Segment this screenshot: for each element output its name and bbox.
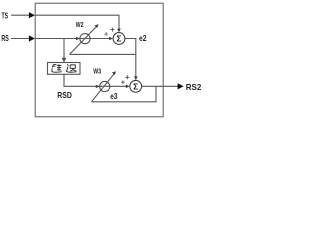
arrowhead into sum2 left (126, 85, 130, 89)
arrowhead into pot W3 left (96, 85, 100, 88)
wire e2 feedback branch to W2 control (70, 53, 136, 55)
wire RS input lead (11, 38, 30, 40)
arrowhead into sum1 top (117, 29, 121, 33)
svg-text:Σ: Σ (116, 34, 121, 44)
wire sum1 output e2 right then down into sum2 top (125, 39, 136, 77)
plus sign sum2 top input (125, 75, 129, 79)
delay box label 延迟 (drawn strokes) (52, 64, 77, 72)
outer block box (35, 3, 163, 117)
wire sum2 output RS2 through box edge (142, 85, 179, 87)
svg-text:W2: W2 (76, 20, 84, 29)
svg-text:e3: e3 (110, 91, 117, 101)
wire delay output down and right to sum2 (64, 74, 126, 86)
arrowhead into delay box top (62, 58, 66, 62)
TS input arrowhead (29, 12, 35, 18)
RS input arrowhead (29, 35, 35, 41)
svg-text:RS2: RS2 (186, 82, 202, 92)
plus sign sum1 left input (104, 32, 108, 36)
svg-text:Σ: Σ (133, 81, 138, 91)
wire TS input lead (11, 14, 30, 16)
svg-text:RSD: RSD (57, 90, 72, 100)
arrowhead into sum1 left (109, 37, 113, 41)
svg-text:W3: W3 (93, 67, 101, 76)
arrowhead into pot W2 left (76, 37, 80, 40)
summing node U2 circle (130, 80, 142, 92)
arrowhead into sum2 top (134, 76, 138, 80)
delay box (48, 63, 81, 75)
pot W3 arrowhead (112, 71, 116, 75)
plus sign sum1 top input (110, 28, 114, 32)
wire W3 control diagonal (92, 74, 115, 102)
wire RS line through pot W2 to sum1 (35, 38, 109, 40)
pot W2 arrowhead (95, 24, 99, 28)
svg-text:RS: RS (1, 34, 9, 43)
plus sign sum2 left input (121, 80, 125, 84)
svg-text:TS: TS (2, 11, 9, 20)
wire RS2 feedback down and left (92, 86, 157, 102)
wire W2 control diagonal (70, 26, 97, 54)
wire branch from RS node down to delay box (63, 39, 65, 59)
wire TS inside box to corner above sum1 (35, 15, 119, 29)
pot W2 circle (80, 34, 90, 44)
pot W3 circle (100, 81, 110, 91)
summing node U1 circle (113, 33, 125, 45)
svg-text:e2: e2 (139, 33, 147, 43)
RS2 output arrowhead (178, 83, 184, 89)
